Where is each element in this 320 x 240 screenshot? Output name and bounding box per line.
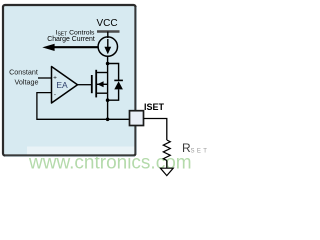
ISET pin box bbox=[130, 111, 144, 126]
wire: resistor to ground bbox=[166, 160, 168, 168]
ground bbox=[160, 168, 173, 175]
transistor Q1 (MOSFET) bbox=[91, 75, 93, 93]
wire: main vertical drain/source rail bbox=[107, 56, 109, 94]
svg-text:Voltage: Voltage bbox=[15, 77, 39, 86]
svg-text:VCC: VCC bbox=[96, 18, 117, 29]
watermark band bbox=[27, 147, 212, 175]
svg-text:EA: EA bbox=[56, 80, 68, 90]
annotation arrow: ISET controls charge current bbox=[53, 46, 98, 48]
svg-text:-: - bbox=[54, 91, 56, 98]
diode D1 branch wires bbox=[108, 64, 119, 81]
op-amp EA bbox=[52, 67, 78, 104]
node junction dots bbox=[106, 62, 110, 66]
IC block border bbox=[3, 5, 136, 156]
svg-text:SET: SET bbox=[191, 148, 210, 154]
svg-text:ISET: ISET bbox=[144, 102, 165, 112]
svg-text:Charge Current: Charge Current bbox=[47, 36, 95, 43]
resistor RSET bbox=[163, 140, 170, 160]
diode D1 bbox=[114, 79, 123, 81]
VCC power bar bbox=[97, 30, 120, 32]
wire: op-amp output to gate bbox=[78, 84, 92, 86]
wire: constant voltage to op-amp + input bbox=[38, 77, 52, 79]
IC block body bbox=[3, 5, 136, 156]
wire: pin to resistor bbox=[144, 119, 167, 141]
current source I1 bbox=[98, 37, 117, 56]
wire VCC bar to current source bbox=[107, 32, 109, 39]
svg-text:Constant: Constant bbox=[9, 68, 38, 77]
wire: feedback loop from - input bbox=[37, 93, 130, 120]
